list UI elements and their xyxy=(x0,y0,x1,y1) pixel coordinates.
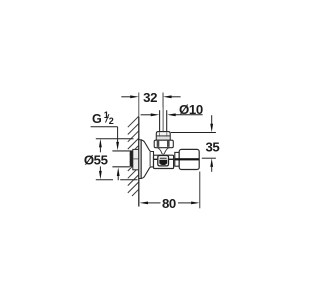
svg-text:G: G xyxy=(92,112,102,126)
funnel between bonnet and body xyxy=(158,148,169,154)
leader for G 1/2 xyxy=(91,127,119,151)
bonnet xyxy=(154,140,173,148)
wall hatching xyxy=(128,116,139,196)
logo plate xyxy=(158,156,169,166)
riser pipe (open top) xyxy=(160,110,167,132)
wall surface line xyxy=(138,93,140,207)
label G 1/2 xyxy=(92,110,114,126)
dimension 35 (outlet axis to riser top) xyxy=(171,115,216,172)
thread collar (dark) xyxy=(130,150,133,166)
svg-text:Ø10: Ø10 xyxy=(179,102,203,117)
escutcheon cone xyxy=(141,140,153,179)
back nut at wall xyxy=(133,149,139,169)
inlet thread G1/2 (open-ended cylinder) xyxy=(112,151,129,167)
svg-text:Ø55: Ø55 xyxy=(84,152,108,167)
compression nut xyxy=(156,132,170,141)
body axis centerline segments xyxy=(154,158,174,160)
riser centerline / 32 extension line xyxy=(162,93,164,132)
svg-text:80: 80 xyxy=(162,196,176,211)
svg-text:2: 2 xyxy=(109,116,114,126)
lower leader arrow pointing up to thread xyxy=(117,167,120,180)
svg-text:32: 32 xyxy=(143,90,157,105)
knob slot band xyxy=(174,158,199,160)
dimension O10 (riser pipe diameter) xyxy=(141,113,203,116)
escutcheon face ring xyxy=(139,140,141,179)
svg-text:35: 35 xyxy=(205,139,219,154)
knob xyxy=(179,149,199,169)
dimension 32 (wall to riser axis) xyxy=(121,93,180,108)
valve body xyxy=(154,155,174,168)
dimension O55 (escutcheon diameter) xyxy=(96,139,138,180)
outlet ring xyxy=(175,152,179,166)
dimension 80 (wall to knob end) xyxy=(139,172,199,209)
